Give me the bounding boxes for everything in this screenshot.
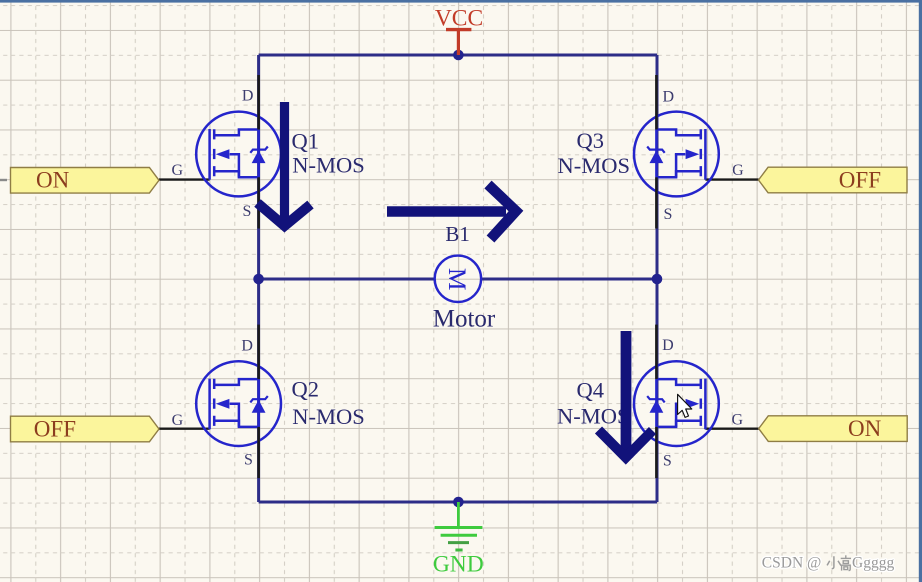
svg-text:CSDN @: CSDN @ <box>762 555 822 572</box>
net flag ON (Q1 gate) <box>11 168 160 194</box>
svg-text:N-MOS: N-MOS <box>557 153 630 178</box>
transistor Q3 (N-MOS) <box>634 75 719 229</box>
svg-text:S: S <box>664 206 673 223</box>
svg-text:OFF: OFF <box>34 416 76 441</box>
svg-text:G: G <box>732 412 744 429</box>
current flow arrow through motor (right) <box>387 185 516 240</box>
junction: motor left node <box>253 274 264 285</box>
wire: left vertical (Q1 drain to Q2 source branch) <box>257 55 260 502</box>
svg-text:Q3: Q3 <box>577 128 605 153</box>
svg-text:S: S <box>663 452 672 469</box>
svg-text:S: S <box>244 452 253 469</box>
window border top <box>0 0 922 3</box>
wire: Q3 gate <box>705 178 758 180</box>
wire: Q2 gate <box>159 428 210 430</box>
svg-text:D: D <box>663 89 675 106</box>
svg-text:S: S <box>243 203 252 220</box>
net flag OFF (Q3 gate) <box>759 167 908 193</box>
svg-text:G: G <box>732 162 744 179</box>
CSDN watermark <box>762 555 895 572</box>
svg-text:OFF: OFF <box>839 167 881 192</box>
wire: Q1 gate <box>159 178 210 180</box>
svg-text:G: G <box>172 412 184 429</box>
transistor Q1 (N-MOS) <box>196 75 281 229</box>
svg-text:ON: ON <box>848 416 882 441</box>
wire: motor rail left segment <box>259 278 435 281</box>
power port GND (earth symbol) <box>435 502 483 550</box>
current flow arrow through Q4 (down) <box>599 331 653 458</box>
net flag ON (Q4 gate) <box>759 416 908 442</box>
junction: GND node <box>453 497 464 508</box>
partial wire stub at left edge <box>0 179 7 181</box>
wire: Q4 gate <box>705 428 758 430</box>
wire: GND bottom rail <box>259 501 657 504</box>
junction: motor right node <box>652 274 663 285</box>
svg-text:Q4: Q4 <box>577 377 605 402</box>
wire: right vertical (Q3 drain to Q4 source branch) <box>656 55 659 502</box>
watermark CJK xiao <box>827 556 841 568</box>
watermark CJK gao <box>841 555 851 570</box>
svg-text:Ggggg: Ggggg <box>852 555 894 572</box>
svg-text:VCC: VCC <box>435 6 483 32</box>
svg-text:ON: ON <box>36 168 70 193</box>
svg-text:M: M <box>443 268 472 291</box>
transistor Q4 (N-MOS) <box>634 325 719 479</box>
current flow arrow through Q1 (down) <box>258 102 311 226</box>
svg-text:D: D <box>242 88 254 105</box>
window border right <box>919 0 922 582</box>
svg-text:G: G <box>172 162 184 179</box>
wire: VCC top rail <box>259 54 657 57</box>
motor B1 circle <box>435 256 481 302</box>
mouse cursor <box>678 394 692 417</box>
svg-text:B1: B1 <box>445 222 470 246</box>
svg-text:D: D <box>662 337 674 354</box>
svg-text:Q2: Q2 <box>292 376 320 401</box>
wire: motor rail right segment <box>481 278 657 281</box>
svg-text:D: D <box>241 337 253 354</box>
svg-text:Motor: Motor <box>433 305 496 332</box>
svg-text:Q1: Q1 <box>292 129 320 154</box>
junction: VCC node <box>453 50 464 61</box>
svg-text:N-MOS: N-MOS <box>557 404 630 429</box>
svg-text:N-MOS: N-MOS <box>292 153 365 178</box>
transistor Q2 (N-MOS) <box>196 325 281 479</box>
net flag OFF (Q2 gate) <box>11 416 160 442</box>
svg-text:N-MOS: N-MOS <box>292 404 365 429</box>
power port VCC (bar symbol) <box>446 30 471 55</box>
svg-text:GND: GND <box>433 551 484 577</box>
